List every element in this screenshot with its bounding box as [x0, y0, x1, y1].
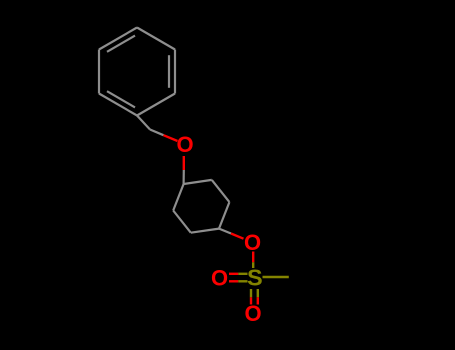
wire cyclohexane edge V5-V6: [173, 211, 191, 233]
wire bond C4 toward O2 red half: [231, 234, 244, 239]
wire S=O4 double bond left line olive part: [250, 289, 252, 297]
wire S=O4 double bond right line olive part: [257, 289, 259, 297]
wire cyclohexane edge V1-V2: [184, 180, 212, 184]
wire benzene edge B5-B6: [98, 50, 100, 94]
wire cyclohexane edge V6-V1: [173, 184, 183, 211]
wire S=O4 double bond left line red part: [250, 297, 252, 304]
wire benzene edge B6-B1: [99, 28, 137, 50]
wire cyclohexane edge V3-V4: [219, 202, 229, 229]
wire cyclohexane edge V2-V3: [212, 180, 230, 202]
svg-text:O: O: [244, 301, 261, 326]
wire aromatic inner line top-left: [107, 36, 135, 52]
svg-text:O: O: [211, 265, 228, 290]
wire benzene edge B3-B4: [137, 94, 175, 116]
wire benzene edge B1-B2: [137, 28, 175, 50]
wire S=O4 double bond right line red part: [257, 297, 259, 304]
wire bond O2 to S olive half: [252, 262, 254, 268]
wire bond C4 toward O2 gray half: [219, 229, 231, 234]
svg-text:O: O: [244, 230, 261, 255]
wire bond O2 to S red half: [252, 252, 254, 263]
wire aromatic inner line right: [168, 55, 170, 88]
wire bond benzene to CH2: [137, 116, 150, 130]
wire S=O3 double bond upper line red part: [229, 273, 238, 275]
cyclohexane ring: [173, 180, 231, 234]
wire bond O1 down to ring gray half: [183, 170, 185, 184]
wire S=O3 double bond lower line olive part: [238, 280, 247, 282]
wire aromatic inner line bottom-left: [107, 91, 135, 107]
wire S=O3 double bond upper line olive part: [238, 273, 247, 275]
wire bond CH2 toward O1 gray half: [150, 130, 164, 136]
wire bond O1 down to ring red half: [183, 156, 185, 170]
wire S methyl bond: [263, 276, 289, 278]
wire benzene edge B2-B3: [174, 50, 176, 94]
wire cyclohexane edge V4-V5: [191, 229, 219, 233]
svg-text:S: S: [247, 265, 263, 291]
wire benzene edge B4-B5: [99, 94, 137, 116]
benzene ring of benzyl group: [99, 28, 175, 136]
wire S=O3 double bond lower line red part: [229, 280, 238, 282]
wire bond CH2 toward O1 red half: [164, 135, 178, 141]
svg-text:O: O: [176, 132, 193, 157]
